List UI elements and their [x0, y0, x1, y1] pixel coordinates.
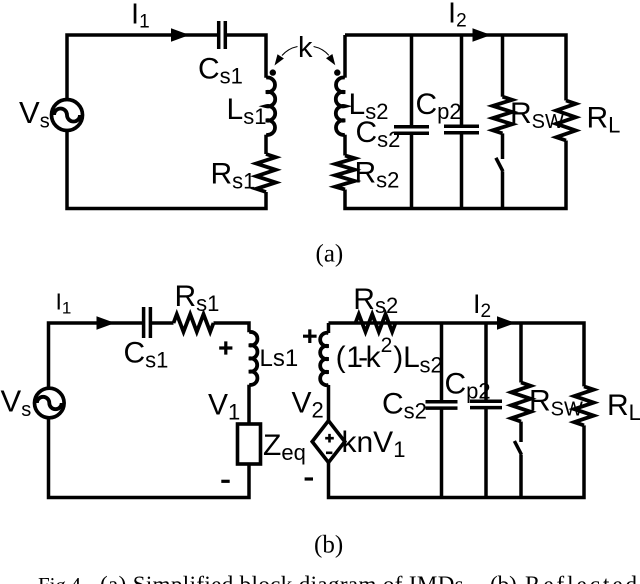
svg-text:(b): (b): [490, 572, 517, 584]
svg-text:(a): (a): [316, 241, 344, 268]
svg-text:Fig.: Fig.: [38, 573, 71, 584]
svg-text:Reflected: Reflected: [525, 572, 640, 584]
svg-text:(b): (b): [314, 532, 343, 559]
svg-text:Ls1: Ls1: [260, 345, 299, 372]
svg-text:4.: 4.: [71, 573, 87, 584]
svg-text:k: k: [298, 32, 313, 64]
svg-text:(a) Simplified block diagram o: (a) Simplified block diagram of IMDs.: [100, 572, 470, 584]
